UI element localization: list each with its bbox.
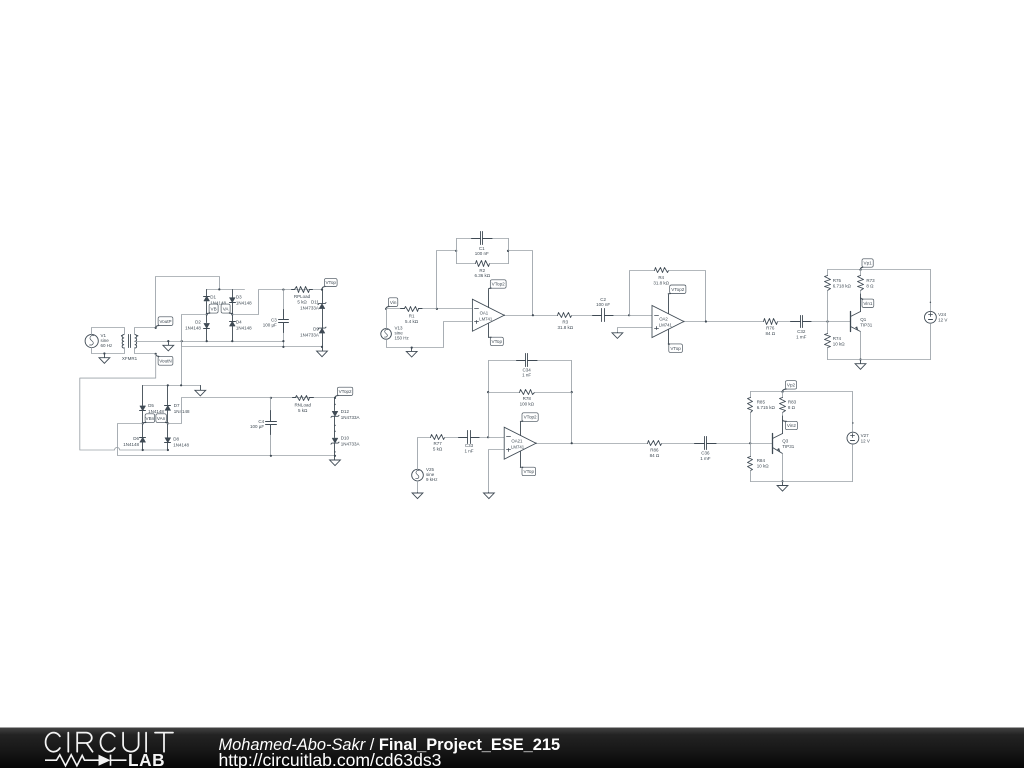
junction VoutN [155, 353, 157, 355]
transistor Q3 TIP31 [772, 434, 774, 454]
wire C33 to OA21 minus [480, 437, 505, 439]
ground Q1 emitter [860, 360, 862, 364]
wire OA21 V+ pin [520, 422, 522, 436]
wire V27 bottom [852, 445, 854, 482]
svg-text:12 V: 12 V [938, 318, 947, 323]
junction emitter ground [859, 358, 861, 360]
svg-text:1N4148: 1N4148 [173, 442, 189, 447]
zener diode D9 1N4733A [319, 328, 325, 333]
svg-text:D8: D8 [173, 436, 179, 441]
wire R3 to C2 [572, 315, 593, 317]
wire OA21 output [537, 443, 648, 445]
svg-text:1 nF: 1 nF [464, 448, 473, 453]
wire Q3 collector to R83 [782, 416, 784, 434]
diode D5 1N4148 [142, 386, 144, 406]
ground OA21 plus [488, 492, 490, 494]
wire V24 bottom [930, 324, 932, 360]
svg-text:LM741: LM741 [479, 316, 493, 321]
resistor R73 8 Ohm [860, 270, 862, 276]
svg-text:D1: D1 [210, 295, 216, 300]
wire Q1 emitter to bottom rail [860, 332, 862, 360]
zener diode D10 1N4733A [332, 438, 338, 443]
junction Q1 base divider [826, 320, 828, 322]
wire R1 to OA1 minus [423, 308, 473, 310]
svg-text:VTop2: VTop2 [339, 389, 352, 394]
resistor R1 5.4 kOhm [401, 308, 405, 310]
svg-text:V27: V27 [861, 433, 870, 438]
resistor RNLoad 5 kOhm [293, 397, 296, 399]
wire R77 to C33 [445, 437, 459, 439]
svg-text:R74: R74 [833, 336, 842, 341]
diode D4 1N4148 [232, 315, 234, 322]
flag Vp1 [862, 259, 873, 267]
logo resistor diode glyph [45, 755, 99, 766]
svg-text:VBn: VBn [146, 416, 155, 421]
junction VTop node [321, 289, 323, 291]
capacitor C1 100 nF [472, 238, 481, 240]
junction R4 left [628, 314, 630, 316]
flag VoutP [158, 317, 173, 326]
wire VoutN loop to lower bridge with hop [80, 354, 168, 450]
resistor R78 100 kOhm [489, 392, 520, 394]
resistor R77 5 kOhm [431, 435, 445, 440]
wire V27 top [852, 392, 854, 433]
resistor R86 84 Ohm [648, 441, 662, 446]
svg-text:D7: D7 [174, 403, 180, 408]
svg-text:1 mF: 1 mF [700, 456, 711, 461]
wire V25 to R77 [418, 438, 431, 470]
svg-text:1N4733A: 1N4733A [300, 332, 319, 337]
junction Q3 base divider [749, 442, 751, 444]
svg-text:R76: R76 [766, 326, 775, 331]
svg-text:150 Hz: 150 Hz [395, 336, 410, 341]
flag VTop2 OA1 [490, 280, 506, 288]
svg-text:R83: R83 [788, 400, 797, 405]
svg-text:R4: R4 [658, 275, 664, 280]
svg-text:Q3: Q3 [782, 439, 789, 444]
wire feedback right leg to output [509, 251, 533, 316]
junction output feedback [532, 314, 534, 316]
voltage source V24 12 V [925, 311, 937, 323]
voltage source V1 sine 60 Hz [85, 334, 98, 347]
flag VTop [324, 279, 337, 287]
svg-text:1N4733A: 1N4733A [300, 305, 319, 310]
ground zener string [322, 347, 324, 352]
svg-text:R2: R2 [479, 268, 485, 273]
diode D8 1N4148 [167, 424, 169, 438]
svg-text:R84: R84 [757, 458, 766, 463]
flag Vp2 [785, 381, 796, 389]
wire C36 to Q3 base [717, 443, 773, 445]
wire rail to R85 [750, 392, 752, 398]
svg-text:R78: R78 [523, 396, 532, 401]
svg-text:8 Ω: 8 Ω [788, 405, 796, 410]
svg-text:5 kΩ: 5 kΩ [297, 300, 307, 305]
junction feedback tap [436, 308, 438, 310]
flag VA [221, 304, 230, 313]
wire OA1 V+ pin [488, 290, 490, 308]
svg-text:60 Hz: 60 Hz [101, 343, 114, 348]
wire R4 feedback loop [630, 271, 655, 316]
svg-text:OA2: OA2 [659, 317, 668, 322]
wire Q1 stage bottom rail [828, 359, 931, 361]
capacitor C4 100 uF [270, 398, 272, 422]
junction feedback box right [507, 250, 509, 252]
resistor RPLoad 5 kOhm [292, 289, 295, 291]
wire base node to R74 [827, 322, 829, 334]
wire V1 bottom to transformer primary [92, 348, 125, 354]
svg-text:8 Ω: 8 Ω [866, 284, 874, 289]
svg-text:LAB: LAB [128, 750, 165, 768]
svg-text:RNLoad: RNLoad [294, 402, 311, 407]
wire Vin to R1 [387, 308, 401, 310]
svg-text:http://circuitlab.com/cd63ds3: http://circuitlab.com/cd63ds3 [219, 750, 442, 768]
svg-text:D5: D5 [148, 403, 154, 408]
zener diode D11 1N4733A [322, 290, 324, 304]
capacitor C33 1 nF [459, 437, 468, 439]
transistor Q1 TIP31 [850, 312, 852, 332]
flag Vin1 [862, 299, 874, 307]
ground Q3 emitter [782, 482, 784, 486]
svg-text:RPLoad: RPLoad [294, 294, 311, 299]
flag VTop2 [337, 387, 352, 395]
svg-text:100 kΩ: 100 kΩ [520, 402, 535, 407]
flag VTop OA2 [669, 344, 683, 353]
wire C1 top path [457, 238, 472, 240]
op-amp OA1 LM741 [472, 299, 504, 331]
wire OA21 plus to ground [489, 450, 505, 493]
wire bridge2 top rail [143, 385, 201, 387]
wire feedback box left side [456, 239, 458, 264]
junction OA2 output feedback [705, 320, 707, 322]
svg-text:VoutP: VoutP [159, 319, 171, 324]
svg-text:Vin: Vin [390, 300, 397, 305]
svg-text:1N4148: 1N4148 [185, 326, 201, 331]
wire secondary top to VoutP node [135, 328, 156, 335]
diode D6 1N4148 [142, 424, 144, 438]
wire feedback left leg OA21 [488, 361, 490, 438]
svg-text:VA: VA [223, 306, 230, 311]
flag VTop2 OA21 [522, 413, 538, 422]
junction C4 top [270, 397, 272, 399]
wire C32 to Q1 base [812, 321, 851, 323]
wire VA to C3 RPLoad rail [233, 290, 323, 315]
wire R84 to bottom rail [750, 471, 752, 482]
wire VoutP riser to bridge top rail [156, 277, 220, 328]
junction C3 lower rail [282, 346, 284, 348]
svg-text:VTop: VTop [670, 346, 681, 351]
capacitor C2 100 nF [593, 315, 602, 317]
svg-text:31.8 kΩ: 31.8 kΩ [653, 280, 669, 285]
ground V25 [417, 492, 419, 494]
svg-text:VoutN: VoutN [159, 359, 172, 364]
svg-text:100 µF: 100 µF [263, 323, 277, 328]
flag Vin [388, 298, 397, 307]
svg-text:10 kΩ: 10 kΩ [833, 341, 846, 346]
svg-text:R85: R85 [757, 400, 766, 405]
junction C4 bottom [270, 455, 272, 457]
wire C34 top path [489, 360, 517, 362]
svg-text:Vp1: Vp1 [864, 261, 873, 266]
resistor R83 8 Ohm [782, 392, 784, 398]
junction D4 bottom [231, 340, 233, 342]
flag VTop OA1 [490, 337, 503, 345]
diode D2 1N4148 [206, 315, 208, 323]
svg-text:D11: D11 [311, 300, 319, 305]
svg-text:D10: D10 [341, 435, 350, 440]
svg-text:R75: R75 [833, 278, 842, 283]
wire R76 to C32 [778, 321, 791, 323]
resistor R2 6.36 kOhm on bottom path [457, 263, 476, 265]
svg-text:6.36 kΩ: 6.36 kΩ [474, 273, 490, 278]
resistor R76 84 Ohm [764, 319, 778, 325]
svg-text:100 nF: 100 nF [475, 251, 489, 256]
wire VB to lower bridge [182, 315, 207, 386]
capacitor C32 1 mF [791, 321, 801, 323]
wire V1 top to transformer primary [92, 328, 125, 335]
wire VBn to lower ground rail [118, 424, 335, 456]
svg-text:VTop2: VTop2 [492, 282, 505, 287]
svg-text:6.718 kΩ: 6.718 kΩ [833, 284, 852, 289]
junction D2 bottom [206, 340, 208, 342]
junction D8 bottom [167, 449, 169, 451]
wire OA2 output [684, 321, 764, 323]
resistor R75 6.718 kOhm [825, 276, 831, 291]
svg-text:Vin1: Vin1 [863, 301, 873, 306]
svg-text:1N4148: 1N4148 [174, 409, 190, 414]
junction V13 ground [411, 347, 413, 349]
wire OA2 V- pin [668, 330, 670, 345]
wire C2 to OA2 minus [614, 315, 653, 317]
svg-text:D9: D9 [313, 327, 319, 332]
svg-text:C32: C32 [797, 329, 806, 334]
svg-text:1N4148: 1N4148 [236, 326, 252, 331]
svg-text:D6: D6 [133, 436, 139, 441]
wire C34 to right leg [538, 360, 572, 362]
resistor R4 31.8 kOhm [655, 268, 669, 273]
svg-text:XFMR1: XFMR1 [122, 356, 138, 361]
junction D6 bottom [142, 449, 144, 451]
junction node VBn [142, 422, 144, 424]
junction OA21 feedback tap [487, 436, 489, 438]
svg-text:R73: R73 [866, 278, 875, 283]
svg-text:31.8 kΩ: 31.8 kΩ [557, 325, 573, 330]
svg-text:LM741: LM741 [511, 444, 525, 449]
flag VoutN [158, 356, 173, 365]
resistor R74 10 kOhm [825, 334, 831, 348]
transformer XFMR1 [122, 335, 124, 349]
wire OA1 V- pin [488, 324, 490, 338]
svg-text:TIP31: TIP31 [860, 323, 873, 328]
svg-text:VTop2: VTop2 [524, 415, 537, 420]
diode D3 1N4148 [232, 290, 234, 298]
wire OA2 V+ pin [668, 295, 670, 314]
logo CIRCUIT text [46, 733, 173, 752]
flag VTop OA21 [522, 467, 536, 476]
svg-text:1N4733A: 1N4733A [341, 415, 360, 420]
resistor R84 10 kOhm [748, 457, 753, 471]
svg-text:OA1: OA1 [480, 310, 489, 315]
junction VTop2 node [334, 397, 336, 399]
svg-text:VTop: VTop [524, 469, 535, 474]
wire R4 right to output [669, 271, 706, 322]
resistor R85 6.715 kOhm [748, 398, 753, 413]
svg-text:9 kHz: 9 kHz [426, 477, 438, 482]
flag VAn [156, 414, 166, 423]
footer bar [0, 728, 1024, 768]
ground bridge2 rail [200, 386, 202, 391]
ground zener2 string [334, 456, 336, 461]
wire Vin node to V13 [386, 309, 388, 329]
svg-text:OA21: OA21 [511, 438, 523, 443]
wire OA1 output [505, 315, 558, 317]
junction C3 center tap [282, 340, 284, 342]
wire R74 to bottom rail [827, 348, 829, 360]
junction V1 ground [103, 352, 105, 354]
capacitor C36 1 mF [695, 443, 705, 445]
wire Q1 collector to R73 [860, 294, 862, 312]
capacitor C34 1 nF [517, 360, 526, 362]
svg-text:1N4148: 1N4148 [236, 301, 252, 306]
wire feedback box right side [508, 239, 510, 264]
svg-text:Vp2: Vp2 [787, 383, 796, 388]
svg-text:R86: R86 [650, 448, 659, 453]
zener diode D12 1N4733A [334, 398, 336, 411]
ground center tap [168, 342, 170, 346]
junction VoutP [155, 327, 157, 329]
svg-text:5 kΩ: 5 kΩ [298, 408, 308, 413]
capacitor C3 100 uF [283, 290, 285, 320]
svg-text:1N4148: 1N4148 [123, 442, 139, 447]
junction zener bottom [321, 346, 323, 348]
junction bridge top rail [218, 288, 220, 290]
wire C1 to box right [493, 238, 509, 240]
svg-text:100 µF: 100 µF [250, 424, 264, 429]
junction center tap branch [181, 340, 183, 342]
svg-text:12 V: 12 V [861, 438, 870, 443]
flag VB [209, 304, 218, 313]
junction Vin node [385, 308, 387, 310]
svg-text:VAn: VAn [157, 416, 166, 421]
svg-text:VB: VB [211, 306, 217, 311]
svg-text:1N4148: 1N4148 [148, 409, 164, 414]
svg-text:Q1: Q1 [860, 317, 867, 322]
wire V24 top [930, 270, 932, 312]
svg-text:R3: R3 [562, 319, 568, 324]
junction Vp1 node [859, 269, 861, 271]
voltage source V13 sine 150 Hz [381, 329, 392, 340]
voltage source V25 sine 9 kHz [412, 469, 424, 481]
wire feedback left leg [437, 251, 457, 309]
junction R78 right [571, 391, 573, 393]
wire bridge top rail [207, 289, 245, 291]
svg-text:Vin2: Vin2 [787, 423, 797, 428]
svg-text:5 kΩ: 5 kΩ [433, 447, 443, 452]
svg-text:D12: D12 [341, 409, 350, 414]
wire VAn to C4 RNLoad rail [168, 398, 335, 424]
wire V13 bottom to OA1 plus [387, 322, 473, 348]
svg-text:VTop2: VTop2 [671, 287, 684, 292]
svg-text:VTop: VTop [325, 280, 336, 285]
svg-text:LM741: LM741 [659, 323, 673, 328]
op-amp OA21 LM741 [504, 427, 536, 459]
flag VBn [145, 414, 155, 423]
svg-text:1 nF: 1 nF [522, 373, 531, 378]
diode D7 1N4148 [167, 386, 169, 406]
svg-text:D2: D2 [195, 320, 201, 325]
junction node VA [231, 313, 233, 315]
svg-text:84 Ω: 84 Ω [765, 331, 775, 336]
junction feedback box left [455, 250, 457, 252]
svg-text:D3: D3 [236, 295, 242, 300]
wire Q1 stage top rail [828, 269, 931, 271]
svg-text:1N4733A: 1N4733A [341, 441, 360, 446]
junction center tap ground [167, 340, 169, 342]
flag Vin2 [785, 421, 797, 429]
svg-text:D4: D4 [236, 320, 242, 325]
wire V25 ground [417, 481, 419, 493]
wire Q3 emitter to bottom rail [782, 454, 784, 482]
wire R86 to C36 [662, 443, 695, 445]
wire R75 to base node [827, 291, 829, 322]
svg-text:6.715 kΩ: 6.715 kΩ [757, 405, 776, 410]
svg-text:84 Ω: 84 Ω [650, 453, 660, 458]
junction OA21 output feedback [571, 442, 573, 444]
junction zener2 bottom [334, 455, 336, 457]
wire feedback right leg OA21 [571, 361, 573, 444]
junction D7 top [167, 384, 169, 386]
wire OA21 V- pin [520, 452, 522, 468]
wire Q3 stage bottom rail [751, 481, 853, 483]
flag VTop2 OA2 [670, 285, 686, 294]
junction R78 left [487, 391, 489, 393]
wire rail to R75 [827, 270, 829, 276]
junction C3 top [282, 289, 284, 291]
svg-text:V24: V24 [938, 312, 947, 317]
junction node VB [206, 313, 208, 315]
svg-text:C3: C3 [271, 317, 277, 322]
wire R85 to base node [750, 413, 752, 444]
wire base node to R84 [750, 444, 752, 457]
voltage source V27 12 V [847, 432, 859, 444]
wire Q3 stage top rail [751, 391, 853, 393]
svg-text:TIP31: TIP31 [782, 444, 795, 449]
wire center tap rail [135, 341, 284, 343]
svg-text:1 mF: 1 mF [796, 334, 807, 339]
junction VB riser on rail [180, 384, 182, 386]
junction Q3 emitter ground [781, 480, 783, 482]
svg-text:100 nF: 100 nF [596, 302, 610, 307]
svg-text:5.4 kΩ: 5.4 kΩ [405, 319, 419, 324]
diode D1 1N4148 [206, 290, 208, 297]
svg-text:R1: R1 [409, 313, 415, 318]
resistor R3 31.8 kOhm [558, 313, 572, 318]
svg-text:R77: R77 [433, 441, 442, 446]
wire VoutN from secondary bottom [135, 348, 156, 354]
svg-text:VTop: VTop [492, 339, 503, 344]
ground V13 [411, 348, 413, 352]
svg-text:10 kΩ: 10 kΩ [757, 463, 770, 468]
junction Vp2 node [781, 391, 783, 393]
ground OA2 plus input [618, 328, 653, 333]
op-amp OA2 LM741 [652, 306, 684, 338]
wire lower rail to zener ground [182, 342, 323, 347]
ground V1 [104, 354, 106, 358]
junction node VAn [167, 422, 169, 424]
